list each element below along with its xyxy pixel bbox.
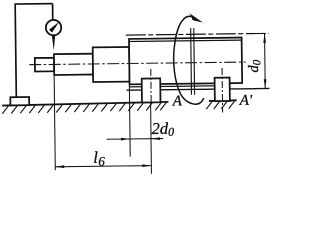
svg-text:d0: d0	[246, 59, 263, 72]
svg-text:A′: A′	[239, 93, 253, 109]
indicator contact arrow	[52, 36, 55, 51]
ground (surface plate) line left segment	[2, 102, 168, 106]
lower rail line 2 (d0 bottom extension)	[127, 88, 270, 90]
cylinder inner top line	[129, 40, 241, 41]
indicator stand arm	[14, 3, 52, 5]
tip-circle dash-dot line (top, d0 extension)	[126, 33, 269, 35]
l6 dimension line	[55, 166, 151, 167]
dial indicator body	[46, 20, 62, 36]
svg-text:l6: l6	[93, 148, 105, 169]
shaft step 2	[54, 54, 93, 75]
l6 measuring-point extension line	[54, 75, 55, 170]
rotation arrow (curved)	[173, 16, 203, 104]
dial needle	[49, 22, 60, 33]
2d0 dimension line with outside arrows	[107, 138, 163, 141]
2d0 left extension line (cylinder left edge extended)	[128, 84, 131, 156]
d0 dimension line (vertical, right)	[264, 33, 267, 88]
indicator stand base	[10, 97, 29, 105]
main cylinder (measured part)	[129, 38, 242, 85]
support block A centerline	[150, 69, 152, 103]
support A center extension below ground	[150, 103, 153, 174]
indicator stand drop link	[52, 4, 54, 20]
ground line right segment	[209, 99, 237, 102]
shaft axis centerline	[29, 62, 245, 65]
d0 bottom arrowhead	[264, 79, 267, 88]
2d0 left arrowhead	[121, 138, 130, 141]
rotation arrowhead	[189, 13, 203, 23]
support block A' centerline	[221, 68, 224, 112]
marker pin pair through cylinder	[190, 28, 193, 95]
lower rail line 1	[130, 86, 230, 87]
l6 right arrowhead	[142, 164, 151, 167]
svg-text:2d0: 2d0	[151, 119, 174, 139]
support block A'	[215, 78, 230, 102]
support block A	[142, 78, 161, 102]
shaft step 3	[93, 47, 130, 82]
d0 top arrowhead	[263, 34, 266, 43]
svg-text:A: A	[172, 93, 183, 109]
indicator stand column	[15, 4, 16, 97]
l6 left arrowhead	[55, 165, 64, 168]
2d0 right arrowhead	[151, 137, 160, 140]
ground hatching	[2, 101, 235, 114]
shaft stub (left end)	[35, 58, 54, 72]
